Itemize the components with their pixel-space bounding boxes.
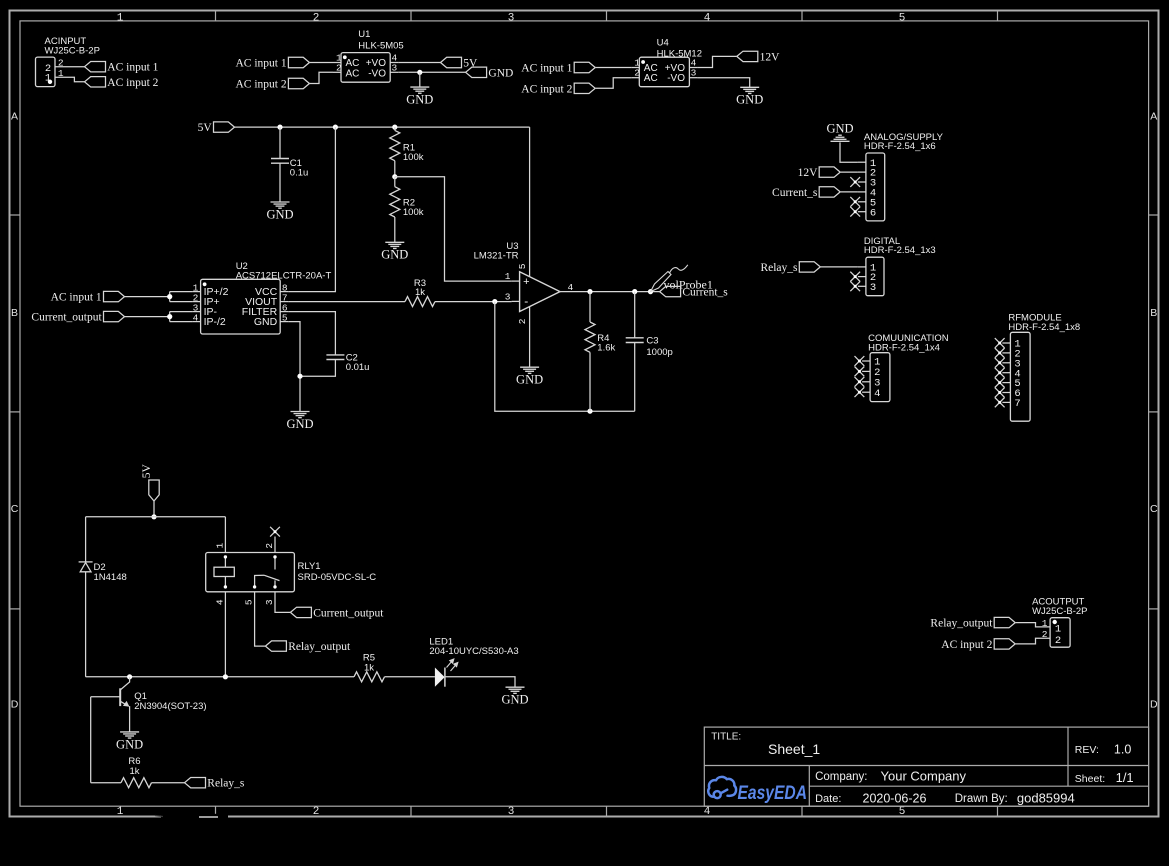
net label AC input 2	[85, 77, 106, 87]
net label Current_output at relay	[290, 607, 311, 617]
svg-text:2020-06-26: 2020-06-26	[863, 791, 927, 805]
svg-text:D: D	[11, 699, 19, 711]
transistor Q1 2N3904(SOT-23)	[119, 688, 121, 706]
svg-text:A: A	[11, 111, 18, 123]
svg-text:GND: GND	[516, 373, 543, 387]
svg-text:Drawn By:: Drawn By:	[955, 793, 1008, 805]
net label AC input 1	[85, 62, 106, 72]
svg-text:Relay_output: Relay_output	[930, 618, 993, 630]
title block	[704, 727, 1148, 806]
wire AC input 1 to U2 pins 1-2	[125, 296, 170, 298]
ground symbol below U1	[419, 72, 421, 87]
svg-text:4: 4	[704, 13, 711, 25]
svg-text:AC input 2: AC input 2	[235, 79, 286, 91]
svg-text:TITLE:: TITLE:	[711, 732, 741, 743]
net label Current_output at U2	[104, 311, 125, 321]
net label AC input 1 at U4	[574, 62, 595, 72]
svg-text:2: 2	[517, 318, 528, 324]
svg-text:AC input 1: AC input 1	[235, 58, 286, 70]
net label Current_s at output	[660, 286, 681, 296]
junction at op-amp inverting input	[492, 299, 497, 304]
voltage probe volProbe1	[651, 265, 688, 292]
ground symbol below C1	[271, 201, 290, 203]
svg-text:1: 1	[117, 806, 124, 818]
svg-text:5: 5	[899, 13, 906, 25]
svg-text:C3: C3	[646, 335, 658, 346]
svg-text:12V: 12V	[798, 167, 819, 179]
svg-text:IP-/2: IP-/2	[204, 316, 226, 328]
svg-text:1k: 1k	[364, 662, 374, 673]
svg-text:12V: 12V	[760, 51, 781, 63]
svg-text:3: 3	[505, 292, 511, 303]
pin stubs U1	[333, 62, 341, 64]
LED LED1 204-10UYC/S530-A3	[435, 668, 445, 687]
svg-text:2: 2	[634, 68, 640, 79]
svg-text:AC input 1: AC input 1	[521, 63, 572, 75]
no-connect X marks on COMUUNICATION pins	[855, 356, 865, 366]
svg-text:-VO: -VO	[667, 73, 685, 84]
svg-text:1k: 1k	[415, 287, 425, 298]
svg-text:4: 4	[704, 806, 711, 818]
svg-text:GND: GND	[736, 93, 763, 107]
pin stubs U2	[193, 291, 201, 293]
svg-text:SRD-05VDC-SL-C: SRD-05VDC-SL-C	[298, 572, 377, 583]
EasyEDA logo	[708, 777, 736, 798]
junction at Q1 collector	[127, 674, 132, 679]
svg-text:5: 5	[517, 263, 528, 269]
capacitor C1 0.1u	[279, 127, 281, 158]
svg-text:Current_output: Current_output	[31, 312, 102, 324]
resistor R4 1.6k	[589, 292, 591, 322]
wire Current_s to ANALOG pin 4	[840, 191, 858, 193]
junction 5V at R1	[392, 125, 397, 130]
svg-text:Date:: Date:	[815, 793, 841, 805]
feedback wire output to inverting input	[495, 302, 635, 412]
wire relay pin 4 down	[224, 592, 226, 677]
svg-text:U1: U1	[358, 29, 370, 40]
pin stubs U4	[631, 67, 639, 69]
wire GND to ANALOG pin 1	[840, 142, 858, 162]
no-connect X marks on DIGITAL pins 2,3	[850, 272, 860, 282]
svg-text:1: 1	[215, 543, 226, 549]
svg-text:Your Company: Your Company	[881, 769, 967, 784]
wire 5V down to rail	[153, 501, 155, 517]
svg-text:1.6k: 1.6k	[597, 343, 615, 354]
svg-text:2: 2	[264, 543, 275, 549]
net label GND at U1 output	[466, 67, 487, 77]
svg-text:1k: 1k	[129, 766, 139, 777]
no-connect X marks on ANALOG header pins 3,5,6	[850, 177, 860, 187]
ground symbol below U3	[520, 366, 539, 368]
wire to U1 pin2	[309, 72, 333, 83]
svg-text:B: B	[11, 307, 18, 319]
svg-text:HDR-F-2.54_1x3: HDR-F-2.54_1x3	[864, 245, 936, 256]
relay pin 2 no-connect	[274, 537, 276, 553]
U3 pin 3 stub	[512, 300, 520, 302]
svg-text:+: +	[523, 276, 529, 288]
svg-text:AC input 1: AC input 1	[51, 292, 102, 304]
wire U4 pin4 to 12V	[697, 56, 736, 67]
wire U1 pin3 to GND	[398, 71, 465, 73]
svg-text:100k: 100k	[403, 152, 424, 163]
svg-text:4: 4	[874, 388, 880, 400]
junction 5V at C1	[277, 125, 282, 130]
svg-text:3: 3	[691, 68, 697, 79]
svg-text:GND: GND	[116, 737, 143, 751]
svg-text:Relay_s: Relay_s	[760, 262, 798, 274]
svg-text:U4: U4	[657, 38, 669, 49]
svg-text:C: C	[11, 503, 19, 515]
svg-text:HLK-5M05: HLK-5M05	[358, 41, 403, 52]
ground symbol below R2	[385, 241, 404, 243]
relay RLY1 SRD-05VDC-SL-C	[206, 553, 295, 592]
net label 5V at U1 output	[441, 57, 462, 67]
svg-text:6: 6	[870, 207, 876, 219]
wire R6 to Relay_s	[152, 782, 185, 784]
svg-text:7: 7	[1014, 398, 1020, 410]
wire AC input 2 to ACOUTPUT pin2	[1015, 638, 1050, 644]
net label 5V rail	[214, 122, 235, 132]
junction C2/GND	[297, 374, 302, 379]
svg-text:GND: GND	[286, 417, 313, 431]
svg-text:-: -	[524, 294, 528, 308]
svg-text:0.01u: 0.01u	[346, 362, 370, 373]
wire divider tap to op-amp + input	[395, 177, 512, 281]
svg-text:WJ25C-B-2P: WJ25C-B-2P	[45, 46, 100, 57]
net label AC input 2 at U1	[288, 78, 309, 88]
junction 5V at U2 VCC	[333, 125, 338, 130]
svg-text:5V: 5V	[198, 122, 213, 134]
svg-text:3: 3	[508, 13, 515, 25]
svg-text:HDR-F-2.54_1x6: HDR-F-2.54_1x6	[864, 141, 936, 152]
wire relay pin 5 to Relay_output	[255, 592, 266, 646]
svg-text:GND: GND	[406, 93, 433, 107]
junction feedback at R4 bottom	[587, 409, 592, 414]
junction Current_output split	[167, 314, 172, 319]
U3 pin 1 stub	[512, 280, 520, 282]
svg-text:1: 1	[505, 271, 511, 282]
svg-text:-VO: -VO	[368, 68, 386, 79]
U3 output pin 4 wire	[560, 291, 660, 293]
wire U2 GND pin to ground	[288, 322, 300, 412]
svg-text:3: 3	[870, 282, 876, 294]
resistor R6 1k	[121, 778, 152, 788]
svg-text:B: B	[1150, 307, 1157, 319]
wire relay top rail	[86, 516, 226, 518]
U3 pin 2 wire to ground	[529, 307, 531, 368]
svg-text:2: 2	[313, 806, 320, 818]
svg-text:RLY1: RLY1	[298, 561, 321, 572]
net label AC input 2 at U4	[574, 83, 595, 93]
diode D2 1N4148	[79, 561, 93, 563]
wire 12V to ANALOG pin 2	[840, 171, 858, 173]
net label AC input 1 at U1	[288, 57, 309, 67]
svg-text:AC: AC	[644, 73, 658, 84]
U3 pin 5 supply wire to 5V rail	[529, 127, 531, 277]
resistor R3 1k	[288, 301, 405, 303]
junction output at C3	[632, 289, 637, 294]
svg-text:HDR-F-2.54_1x4: HDR-F-2.54_1x4	[868, 343, 940, 354]
svg-text:1000p: 1000p	[646, 347, 672, 358]
wire ACINPUT pin1 to AC input 2	[55, 77, 85, 82]
svg-text:LM321-TR: LM321-TR	[474, 250, 519, 261]
wire U4 pin3 to ground	[697, 78, 749, 88]
svg-text:AC: AC	[346, 68, 360, 79]
ground symbol below U4	[740, 86, 759, 88]
svg-text:Current_s: Current_s	[772, 187, 818, 199]
wire Current_output to U2 pins 3-4	[125, 316, 170, 318]
svg-text:4: 4	[215, 599, 226, 605]
net label 5V vertical	[149, 480, 159, 501]
wire left branch to D2	[85, 517, 87, 562]
relay switch contacts	[274, 557, 276, 570]
svg-text:5: 5	[244, 599, 255, 605]
svg-text:GND: GND	[381, 248, 408, 262]
wire bottom rail left	[86, 676, 354, 678]
wire ACINPUT pin2 to AC input 1	[55, 66, 85, 68]
no-connect X marks on RFMODULE pins	[995, 338, 1005, 348]
junction R1-R2 node	[392, 174, 397, 179]
resistor R5 1k	[354, 672, 385, 682]
junction on U1 pin3 net	[417, 70, 422, 75]
svg-text:Current_s: Current_s	[682, 287, 728, 299]
wire to U4 pin1	[595, 67, 631, 69]
ground symbol after LED1	[506, 686, 525, 688]
svg-text:GND: GND	[826, 121, 853, 135]
svg-text:5V: 5V	[141, 463, 153, 478]
svg-text:Relay_s: Relay_s	[207, 778, 245, 790]
svg-text:Sheet_1: Sheet_1	[768, 741, 820, 757]
wire U1 pin4 to 5V	[398, 62, 440, 64]
svg-text:REV:: REV:	[1075, 744, 1099, 756]
svg-text:EasyEDA: EasyEDA	[738, 783, 808, 804]
svg-text:GND: GND	[254, 316, 278, 328]
svg-text:god85994: god85994	[1017, 790, 1075, 805]
resistor R1 100k	[394, 127, 396, 130]
svg-text:AC input 2: AC input 2	[107, 77, 158, 89]
svg-text:2N3904(SOT-23): 2N3904(SOT-23)	[134, 701, 206, 712]
svg-text:GND: GND	[488, 67, 513, 79]
wire to U4 pin2	[595, 78, 631, 89]
bottom border cursor artifact	[161, 814, 228, 819]
wire Relay_s to DIGITAL pin 1	[820, 266, 858, 268]
svg-text:C: C	[1150, 503, 1158, 515]
svg-text:1.0: 1.0	[1114, 743, 1131, 757]
svg-text:1: 1	[1055, 624, 1061, 636]
net label 12V at U4 output	[737, 51, 758, 61]
ground symbol below Q1	[120, 731, 139, 733]
svg-text:GND: GND	[266, 207, 293, 221]
svg-text:Sheet:: Sheet:	[1075, 773, 1105, 785]
svg-text:5: 5	[899, 806, 906, 818]
svg-text:AC input 2: AC input 2	[521, 83, 572, 95]
wire R5 to LED1	[385, 676, 435, 678]
relay coil	[214, 567, 234, 576]
svg-text:GND: GND	[501, 693, 528, 707]
net label AC input 1 at U2	[104, 291, 125, 301]
wire Q1 base to R6	[91, 696, 121, 698]
svg-text:2: 2	[1055, 635, 1061, 647]
net label Current_s at ANALOG pin 4	[819, 187, 840, 197]
svg-text:1N4148: 1N4148	[94, 572, 127, 583]
net label AC input 2 at ACOUTPUT	[994, 639, 1015, 649]
svg-text:AC input 2: AC input 2	[941, 639, 992, 651]
net label Relay_output	[265, 641, 286, 651]
svg-text:Current_output: Current_output	[313, 607, 384, 619]
svg-text:1: 1	[117, 13, 124, 25]
wire 5V rail	[235, 126, 530, 128]
svg-text:Relay_output: Relay_output	[288, 641, 351, 653]
svg-text:1/1: 1/1	[1116, 770, 1134, 785]
svg-text:204-10UYC/S530-A3: 204-10UYC/S530-A3	[429, 646, 518, 657]
svg-text:3: 3	[508, 806, 515, 818]
wire to U1 pin1	[309, 62, 333, 64]
net label Relay_output at ACOUTPUT	[994, 617, 1015, 627]
junction 5V at relay rail	[151, 514, 156, 519]
svg-text:D: D	[1150, 699, 1158, 711]
svg-text:0.1u: 0.1u	[290, 167, 309, 178]
svg-text:2: 2	[313, 13, 320, 25]
svg-text:A: A	[1150, 111, 1157, 123]
resistor R2 100k	[394, 177, 396, 187]
wire relay pin 3 to Current_output	[275, 592, 290, 613]
svg-text:3: 3	[264, 599, 275, 605]
svg-text:4: 4	[568, 282, 574, 293]
svg-text:AC input 1: AC input 1	[107, 62, 158, 74]
capacitor C2 0.01u	[326, 354, 344, 356]
net label 12V at ANALOG pin 2	[819, 167, 840, 177]
wire U2 VCC to 5V rail	[288, 127, 335, 292]
net label Relay_s at DIGITAL pin 1	[799, 262, 820, 272]
svg-text:WJ25C-B-2P: WJ25C-B-2P	[1032, 606, 1087, 617]
wire 5V rail to relay pin 1	[224, 517, 226, 553]
junction AC input 1 split	[167, 294, 172, 299]
svg-text:HDR-F-2.54_1x8: HDR-F-2.54_1x8	[1008, 322, 1080, 333]
capacitor C3 1000p	[634, 292, 636, 338]
wire Relay_output to ACOUTPUT pin1	[1015, 623, 1050, 627]
svg-text:Company:: Company:	[815, 771, 867, 783]
ground symbol below U2	[291, 411, 310, 413]
junction at relay pin4	[223, 674, 228, 679]
svg-text:100k: 100k	[403, 207, 424, 218]
wire U2 FILTER to C2	[288, 312, 335, 355]
wire LED1 to ground	[445, 677, 515, 687]
junction output at R4	[587, 289, 592, 294]
wire D2 to bottom rail	[85, 572, 87, 677]
junction output at probe	[648, 289, 653, 294]
net label Relay_s at R6	[185, 778, 206, 788]
